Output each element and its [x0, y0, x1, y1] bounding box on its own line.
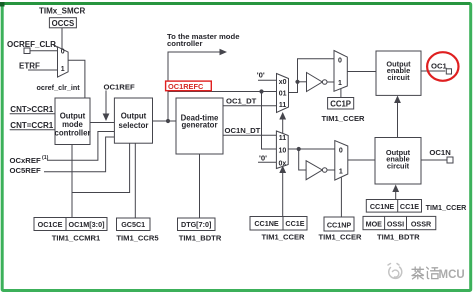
svg-text:OC1REFC: OC1REFC [168, 82, 204, 91]
svg-text:x0: x0 [279, 79, 287, 86]
svg-text:CC1NE: CC1NE [254, 219, 279, 228]
svg-text:TIM1_CCER: TIM1_CCER [261, 232, 305, 241]
svg-text:Output: Output [121, 112, 147, 121]
svg-text:MCU: MCU [439, 269, 465, 281]
svg-text:OCCS: OCCS [52, 19, 75, 28]
svg-text:selector: selector [119, 121, 149, 130]
svg-text:10: 10 [279, 148, 287, 155]
svg-text:01: 01 [279, 90, 287, 97]
svg-text:OSSI: OSSI [387, 220, 404, 229]
svg-text:OCxREF: OCxREF [10, 156, 41, 165]
svg-text:CC1NE: CC1NE [370, 202, 395, 211]
svg-text:TIM1_BDTR: TIM1_BDTR [377, 233, 420, 242]
svg-text:1: 1 [338, 80, 342, 87]
svg-text:controller: controller [55, 128, 91, 137]
svg-text:11: 11 [279, 102, 287, 109]
svg-text:GC5C1: GC5C1 [121, 220, 145, 229]
svg-text:'0': '0' [259, 153, 267, 162]
svg-text:TIM1_CCMR1: TIM1_CCMR1 [52, 234, 101, 243]
svg-text:CC1NP: CC1NP [327, 221, 352, 230]
svg-text:OC5REF: OC5REF [10, 166, 41, 175]
svg-text:OC1: OC1 [431, 62, 448, 71]
svg-text:TIMx_SMCR: TIMx_SMCR [39, 7, 85, 16]
svg-text:1: 1 [339, 168, 343, 175]
svg-text:generator: generator [182, 121, 218, 130]
svg-text:circuit: circuit [387, 73, 410, 82]
svg-text:CC1E: CC1E [400, 202, 419, 211]
svg-text:MOE: MOE [366, 220, 383, 229]
svg-text:1: 1 [61, 66, 65, 73]
svg-text:controller: controller [167, 39, 202, 48]
svg-text:11: 11 [279, 135, 287, 142]
svg-text:OC1REF: OC1REF [104, 83, 135, 92]
svg-text:CC1E: CC1E [285, 219, 304, 228]
svg-text:CC1P: CC1P [330, 100, 351, 109]
svg-text:OC1M[3:0]: OC1M[3:0] [69, 220, 105, 229]
svg-text:DTG[7:0]: DTG[7:0] [181, 220, 211, 229]
svg-text:0: 0 [61, 49, 65, 56]
svg-text:CNT=CCR1: CNT=CCR1 [10, 121, 53, 130]
svg-text:'0': '0' [257, 71, 265, 80]
svg-text:OC1CE: OC1CE [38, 220, 63, 229]
svg-text:OSSR: OSSR [411, 220, 432, 229]
svg-text:OC1_DT: OC1_DT [226, 97, 257, 106]
svg-text:TIM1_CCR5: TIM1_CCR5 [116, 234, 159, 243]
svg-text:TIM1_BDTR: TIM1_BDTR [179, 234, 222, 243]
svg-text:TIM1_CCER: TIM1_CCER [426, 203, 468, 212]
svg-text:OC1N_DT: OC1N_DT [225, 126, 261, 135]
svg-text:(1): (1) [42, 155, 49, 161]
svg-text:0x: 0x [279, 160, 287, 167]
svg-text:TIM1_CCER: TIM1_CCER [318, 233, 362, 242]
svg-text:0: 0 [339, 147, 343, 154]
svg-text:OCREF_CLR: OCREF_CLR [7, 40, 56, 49]
svg-text:circuit: circuit [387, 161, 410, 170]
svg-text:OC1N: OC1N [429, 148, 451, 157]
svg-text:CNT>CCR1: CNT>CCR1 [10, 105, 53, 114]
svg-text:ETRF: ETRF [19, 61, 40, 70]
svg-text:ocref_clr_int: ocref_clr_int [37, 83, 81, 92]
svg-text:0: 0 [338, 58, 342, 65]
svg-text:TIM1_CCER: TIM1_CCER [321, 114, 365, 123]
